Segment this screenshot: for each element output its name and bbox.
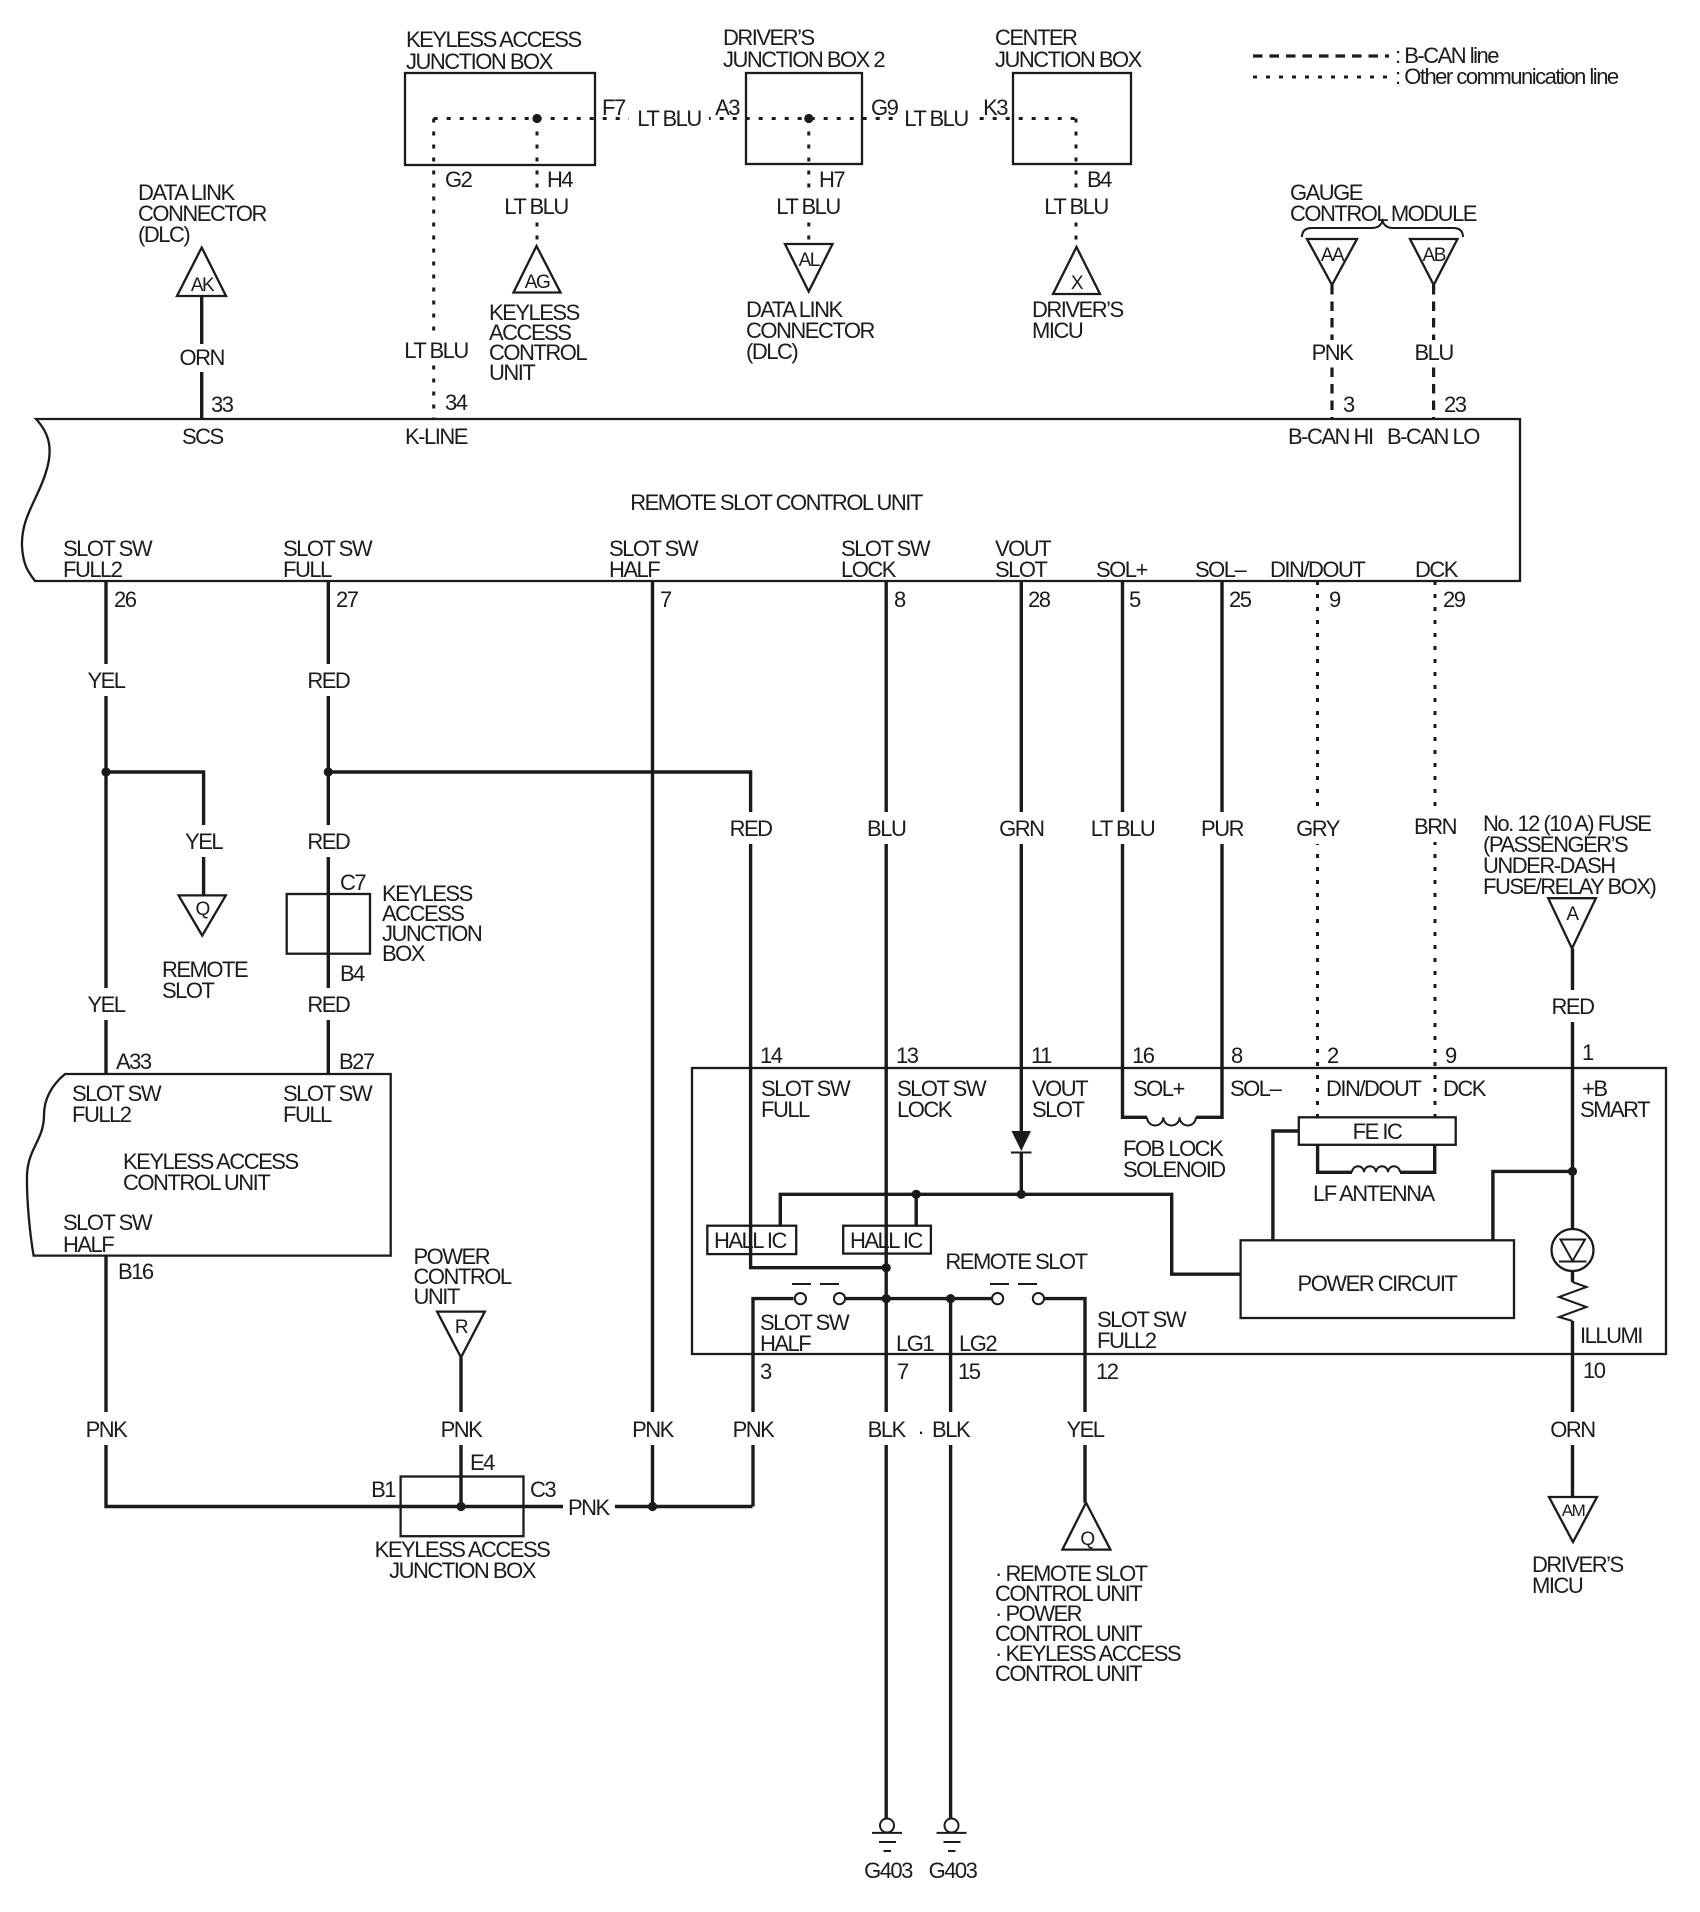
label KEYLESS ACCESS CONTROL UNIT (under AG) xyxy=(489,300,587,385)
wire BLU pin 8 to pin 13 xyxy=(862,581,910,1068)
svg-text:F7: F7 xyxy=(602,95,626,120)
connector triangle X xyxy=(1053,247,1100,294)
svg-text:RED: RED xyxy=(1552,994,1595,1019)
svg-text:26: 26 xyxy=(114,587,137,612)
svg-text:A: A xyxy=(1566,904,1579,925)
wire PUR pin 25 to pin 8 xyxy=(1198,581,1246,1068)
svg-text:AK: AK xyxy=(191,275,215,296)
node junction on YEL wire xyxy=(101,767,110,776)
wire GRY dotted DIN/DOUT pin 9 to pin 2 xyxy=(1293,581,1343,1117)
svg-text:RED: RED xyxy=(730,816,773,841)
svg-text:8: 8 xyxy=(1231,1043,1243,1068)
svg-text:BLK: BLK xyxy=(932,1417,971,1442)
svg-text:C3: C3 xyxy=(530,1477,556,1502)
svg-text:BOX: BOX xyxy=(382,941,426,966)
wire hall ic 2 to bus xyxy=(915,1194,918,1225)
svg-text:REMOTE SLOT: REMOTE SLOT xyxy=(945,1249,1087,1274)
wire PNK R to E4 xyxy=(438,1357,484,1506)
svg-text:FULL: FULL xyxy=(283,557,332,582)
keyless access junction box (top) xyxy=(405,73,595,165)
wire internal bus to power circuit xyxy=(780,1194,1240,1274)
node junction wire 7 / pnk bus xyxy=(648,1502,657,1511)
wire YEL pin 12 to Q xyxy=(1062,1354,1108,1503)
remote slot control unit box xyxy=(22,419,1520,581)
wire YEL pin 26 to A33 xyxy=(82,581,130,1074)
wire ORN pin 10 to AM xyxy=(1549,1354,1597,1497)
svg-text:SMART: SMART xyxy=(1580,1097,1650,1122)
legend B-CAN line xyxy=(1253,43,1499,68)
label REMOTE SLOT (under Q) xyxy=(162,957,248,1003)
svg-text:9: 9 xyxy=(1329,587,1341,612)
svg-text:HALF: HALF xyxy=(63,1232,114,1257)
svg-text:5: 5 xyxy=(1129,587,1141,612)
wire YEL branch to remote slot Q xyxy=(106,772,227,895)
svg-text:MICU: MICU xyxy=(1032,318,1083,343)
wire LT BLU pin 5 to pin 16 xyxy=(1084,581,1160,1068)
svg-text:B27: B27 xyxy=(339,1049,375,1074)
wire LT BLU dotted H4 to AG xyxy=(501,119,572,247)
diode on VOUT SLOT line xyxy=(1011,1068,1032,1194)
svg-text:(DLC): (DLC) xyxy=(138,222,189,247)
svg-text:A3: A3 xyxy=(715,95,740,120)
resistor ILLUMI xyxy=(1559,1271,1587,1354)
wire LT BLU dotted horizontal run F7/A3/G9/K3 xyxy=(434,105,1076,132)
svg-text:28: 28 xyxy=(1028,587,1051,612)
remote slot assembly box xyxy=(692,1068,1666,1354)
svg-text:RED: RED xyxy=(307,992,350,1017)
pin SLOT SW HALF label xyxy=(609,536,699,582)
connector triangle AA xyxy=(1307,239,1357,285)
svg-text:PNK: PNK xyxy=(441,1417,484,1442)
keyless access junction box (bottom) xyxy=(401,1477,524,1537)
svg-text:LG1: LG1 xyxy=(896,1331,934,1356)
node junction bus / hall ic 2 xyxy=(912,1190,921,1199)
svg-text:GRY: GRY xyxy=(1296,816,1341,841)
switch slot sw half xyxy=(753,1284,886,1354)
svg-text:PNK: PNK xyxy=(632,1417,675,1442)
svg-text:G403: G403 xyxy=(864,1858,913,1883)
svg-text:B-CAN LO: B-CAN LO xyxy=(1387,424,1480,449)
node junction E4 xyxy=(456,1502,465,1511)
svg-text:16: 16 xyxy=(1132,1043,1155,1068)
svg-text:SOL–: SOL– xyxy=(1230,1076,1283,1101)
pin SLOT SW LOCK label (assembly) xyxy=(897,1076,987,1122)
svg-text:BLU: BLU xyxy=(867,816,906,841)
svg-text:E4: E4 xyxy=(470,1450,495,1475)
svg-text:2: 2 xyxy=(1327,1043,1339,1068)
svg-text:YEL: YEL xyxy=(87,668,125,693)
keyless access control unit box xyxy=(27,1074,391,1256)
wire switch row to LG2 xyxy=(886,1297,950,1300)
svg-text:AM: AM xyxy=(1562,1501,1585,1520)
node junction switch row / wire 13 xyxy=(882,1294,891,1303)
pin +B SMART label xyxy=(1580,1076,1650,1122)
wire ORN from AK to pin 33 xyxy=(177,296,227,418)
svg-text:G2: G2 xyxy=(445,167,473,192)
connector triangle AL xyxy=(785,244,833,292)
svg-text:LT BLU: LT BLU xyxy=(504,194,568,219)
svg-text:25: 25 xyxy=(1229,587,1252,612)
svg-text:JUNCTION BOX: JUNCTION BOX xyxy=(406,49,554,74)
wire LT BLU dotted H7 to AL xyxy=(773,119,844,245)
svg-text:PUR: PUR xyxy=(1201,816,1244,841)
connector triangle AK xyxy=(177,248,226,297)
pin SLOT SW FULL label (KACU) xyxy=(283,1081,373,1127)
svg-text:JUNCTION BOX: JUNCTION BOX xyxy=(389,1558,537,1583)
svg-text:PNK: PNK xyxy=(1312,340,1355,365)
svg-text:R: R xyxy=(455,1317,468,1338)
svg-text:AA: AA xyxy=(1321,245,1345,266)
svg-text:LF ANTENNA: LF ANTENNA xyxy=(1313,1181,1436,1206)
illumination lamp xyxy=(1552,1229,1594,1271)
svg-text:ORN: ORN xyxy=(1550,1417,1595,1442)
svg-text:ORN: ORN xyxy=(180,345,225,370)
pin SLOT SW HALF label (KACU) xyxy=(63,1210,153,1257)
svg-text:SOL+: SOL+ xyxy=(1133,1076,1185,1101)
node junction in keyless access junction box xyxy=(532,114,541,123)
label DATA LINK CONNECTOR (DLC) top-left xyxy=(138,180,266,247)
pin SLOT SW FULL2 label xyxy=(63,536,153,582)
svg-text:C7: C7 xyxy=(340,870,366,895)
svg-text:AB: AB xyxy=(1423,245,1446,266)
label REMOTE SLOT / POWER / KEYLESS ACCESS CONTROL UNIT list xyxy=(995,1561,1181,1686)
wire PNK B-CAN dashed AA to pin 3 xyxy=(1307,285,1357,418)
power circuit box xyxy=(1241,1240,1514,1318)
wire K-LINE dotted G2 to pin 34 xyxy=(400,119,470,419)
wire RED fuse to pin 1 xyxy=(1549,949,1597,1069)
svg-text:SOLENOID: SOLENOID xyxy=(1123,1157,1225,1182)
svg-text:DIN/DOUT: DIN/DOUT xyxy=(1270,557,1365,582)
svg-text:ILLUMI: ILLUMI xyxy=(1580,1323,1642,1348)
svg-text:: Other communication line: : Other communication line xyxy=(1395,64,1619,89)
center junction box xyxy=(1013,73,1131,164)
wire RED pin 27 to B27 xyxy=(303,581,353,1074)
svg-text:K-LINE: K-LINE xyxy=(405,424,468,449)
svg-text:LT BLU: LT BLU xyxy=(776,194,840,219)
svg-text:DCK: DCK xyxy=(1415,557,1459,582)
svg-text:MICU: MICU xyxy=(1532,1573,1583,1598)
switch slot sw full2 (remote slot) xyxy=(951,1284,1085,1354)
svg-text:10: 10 xyxy=(1583,1358,1606,1383)
svg-text:(DLC): (DLC) xyxy=(746,339,797,364)
svg-text:FUSE/RELAY BOX): FUSE/RELAY BOX) xyxy=(1483,874,1655,899)
svg-text:27: 27 xyxy=(336,587,359,612)
svg-text:SLOT: SLOT xyxy=(1032,1097,1085,1122)
svg-text:B4: B4 xyxy=(1087,167,1112,192)
wire +B to power circuit xyxy=(1493,1171,1573,1240)
svg-text:YEL: YEL xyxy=(87,992,125,1017)
svg-text:LOCK: LOCK xyxy=(841,557,897,582)
pin SLOT SW FULL label xyxy=(283,536,373,582)
svg-text:JUNCTION BOX 2: JUNCTION BOX 2 xyxy=(723,47,885,72)
svg-text:YEL: YEL xyxy=(1066,1417,1104,1442)
label CENTER JUNCTION BOX xyxy=(995,25,1143,72)
svg-text:FULL2: FULL2 xyxy=(63,557,123,582)
svg-text:8: 8 xyxy=(894,587,906,612)
wire BLK pin 7 to ground xyxy=(863,1354,909,1819)
svg-text:FULL2: FULL2 xyxy=(1097,1328,1157,1353)
svg-text:UNIT: UNIT xyxy=(489,360,535,385)
svg-text:33: 33 xyxy=(211,392,234,417)
svg-text:SOL+: SOL+ xyxy=(1096,557,1148,582)
svg-text:DIN/DOUT: DIN/DOUT xyxy=(1326,1076,1421,1101)
driver's junction box 2 xyxy=(746,73,862,164)
ground G403 (pin 7) xyxy=(864,1819,913,1884)
svg-text:Q: Q xyxy=(196,899,210,920)
svg-text:14: 14 xyxy=(760,1043,783,1068)
svg-text:PNK: PNK xyxy=(86,1417,129,1442)
label KEYLESS ACCESS JUNCTION BOX (bottom) xyxy=(375,1537,550,1583)
wire slot sw lock pin 13 through hall ic 2 xyxy=(885,1068,888,1354)
label KEYLESS ACCESS JUNCTION BOX (top) xyxy=(406,27,581,74)
pin SLOT SW LOCK label xyxy=(841,536,931,582)
svg-text:LT BLU: LT BLU xyxy=(904,106,968,131)
wire LT BLU dotted B4 to X xyxy=(1040,119,1112,248)
svg-text:12: 12 xyxy=(1096,1359,1119,1384)
svg-text:SCS: SCS xyxy=(182,424,224,449)
lf antenna xyxy=(1318,1145,1435,1173)
label DRIVER'S MICU (under X) xyxy=(1032,297,1124,343)
svg-text:SOL–: SOL– xyxy=(1195,557,1248,582)
svg-text:POWER CIRCUIT: POWER CIRCUIT xyxy=(1298,1271,1458,1296)
svg-text:BRN: BRN xyxy=(1414,814,1457,839)
svg-text:3: 3 xyxy=(1343,392,1355,417)
node junction wire 13 / wire 14 xyxy=(882,1263,891,1272)
label DRIVER'S MICU (bottom) xyxy=(1532,1552,1624,1598)
svg-text:UNIT: UNIT xyxy=(414,1284,460,1309)
svg-text:B16: B16 xyxy=(118,1259,154,1284)
svg-text:HALF: HALF xyxy=(760,1331,811,1356)
svg-text:LOCK: LOCK xyxy=(897,1097,953,1122)
svg-text:CONTROL UNIT: CONTROL UNIT xyxy=(995,1661,1142,1686)
svg-text:LT BLU: LT BLU xyxy=(1091,816,1155,841)
svg-text:H4: H4 xyxy=(547,167,573,192)
wire slot sw full pin 14 through hall ic 1 xyxy=(751,1068,887,1268)
svg-text:AL: AL xyxy=(799,250,820,271)
node junction bus / diode xyxy=(1017,1190,1026,1199)
pin SLOT SW FULL label (assembly) xyxy=(761,1076,851,1122)
connector triangle Q (bottom) xyxy=(1062,1503,1110,1550)
label POWER CONTROL UNIT xyxy=(414,1244,512,1309)
svg-text:LT BLU: LT BLU xyxy=(637,106,701,131)
pin SLOT SW FULL2 label (assembly) xyxy=(1097,1307,1187,1353)
wire GRN pin 28 to pin 11 xyxy=(996,581,1046,1068)
svg-text:PNK: PNK xyxy=(568,1495,611,1520)
svg-text:3: 3 xyxy=(760,1359,772,1384)
wire PNK pin 7 down xyxy=(629,581,677,1507)
svg-text:YEL: YEL xyxy=(185,829,223,854)
svg-text:11: 11 xyxy=(1031,1043,1052,1068)
svg-text:BLK: BLK xyxy=(868,1417,907,1442)
svg-text:SLOT: SLOT xyxy=(162,978,215,1003)
svg-text:FULL2: FULL2 xyxy=(72,1102,132,1127)
svg-text:1: 1 xyxy=(1582,1040,1594,1065)
wire +B smart pin 1 to lamp xyxy=(1571,1068,1574,1229)
svg-text:AG: AG xyxy=(525,272,550,293)
node junction on RED wire xyxy=(324,767,333,776)
svg-text:FE IC: FE IC xyxy=(1353,1119,1403,1144)
node junction +B / power circuit xyxy=(1568,1167,1577,1176)
label DATA LINK CONNECTOR (DLC) under AL xyxy=(746,297,874,364)
wire fe ic to power circuit xyxy=(1273,1131,1299,1240)
connector triangle AM xyxy=(1549,1497,1597,1542)
svg-text:LT BLU: LT BLU xyxy=(404,338,468,363)
pin VOUT SLOT label xyxy=(995,536,1051,582)
svg-text:PNK: PNK xyxy=(733,1417,776,1442)
wire PNK pin 3 below assembly box xyxy=(730,1354,776,1507)
svg-text:DCK: DCK xyxy=(1443,1076,1487,1101)
svg-text:7: 7 xyxy=(660,587,672,612)
brace under gauge control module xyxy=(1302,221,1463,237)
label KEYLESS ACCESS CONTROL UNIT xyxy=(123,1149,298,1195)
svg-text:CONTROL UNIT: CONTROL UNIT xyxy=(123,1170,270,1195)
svg-text:G9: G9 xyxy=(871,95,899,120)
svg-text:B-CAN HI: B-CAN HI xyxy=(1288,424,1373,449)
node junction in driver's junction box 2 xyxy=(804,114,813,123)
svg-text:SLOT: SLOT xyxy=(995,557,1048,582)
svg-text:JUNCTION BOX: JUNCTION BOX xyxy=(995,47,1143,72)
connector triangle A (fuse) xyxy=(1548,898,1596,948)
svg-text:Q: Q xyxy=(1080,1529,1094,1550)
svg-text:29: 29 xyxy=(1443,587,1466,612)
svg-text:HALF: HALF xyxy=(609,557,660,582)
legend other communication line xyxy=(1253,64,1619,89)
svg-text:LT BLU: LT BLU xyxy=(1044,194,1108,219)
hall ic 1 xyxy=(707,1226,796,1254)
svg-text:34: 34 xyxy=(445,390,468,415)
pin SLOT SW HALF label (assembly) xyxy=(760,1310,850,1356)
pin VOUT SLOT label (assembly) xyxy=(1032,1076,1088,1122)
svg-text:GRN: GRN xyxy=(999,816,1044,841)
hall ic 2 xyxy=(843,1226,931,1254)
svg-text:G403: G403 xyxy=(929,1858,978,1883)
svg-text:.: . xyxy=(918,1414,923,1439)
wire BLK pin 15 to ground xyxy=(918,1354,973,1819)
wire RED branch pin 27 to pin 14 xyxy=(328,772,776,1068)
label FOB LOCK SOLENOID xyxy=(1123,1136,1225,1182)
label KEYLESS ACCESS JUNCTION BOX (middle) xyxy=(382,881,482,966)
svg-text:LG2: LG2 xyxy=(959,1331,997,1356)
svg-text:FULL: FULL xyxy=(761,1097,810,1122)
label DRIVER'S JUNCTION BOX 2 xyxy=(723,25,885,72)
wire LG2 pin 15 xyxy=(949,1299,952,1354)
svg-text:RED: RED xyxy=(307,829,350,854)
svg-text:9: 9 xyxy=(1445,1043,1457,1068)
label No. 12 (10 A) FUSE (passenger's under-dash fuse/relay box) xyxy=(1483,811,1655,899)
svg-text:7: 7 xyxy=(897,1359,909,1384)
svg-text:H7: H7 xyxy=(819,167,845,192)
svg-text:X: X xyxy=(1071,273,1084,294)
wire BLU B-CAN dashed AB to pin 23 xyxy=(1409,285,1459,418)
svg-text:A33: A33 xyxy=(116,1049,152,1074)
svg-text:B1: B1 xyxy=(371,1477,396,1502)
pin SLOT SW FULL2 label (KACU) xyxy=(72,1081,162,1127)
svg-text:RED: RED xyxy=(307,668,350,693)
connector triangle Q (remote slot) xyxy=(179,895,226,935)
svg-text:REMOTE SLOT CONTROL UNIT: REMOTE SLOT CONTROL UNIT xyxy=(630,490,923,515)
svg-text:23: 23 xyxy=(1444,392,1467,417)
connector triangle AB xyxy=(1410,239,1458,285)
wire PNK B16 to junction box B1 xyxy=(84,1256,753,1524)
svg-text:K3: K3 xyxy=(983,95,1008,120)
svg-text:B4: B4 xyxy=(340,961,365,986)
svg-text:15: 15 xyxy=(958,1359,981,1384)
label GAUGE CONTROL MODULE xyxy=(1290,180,1477,226)
fob lock solenoid xyxy=(1123,1068,1223,1125)
fe ic xyxy=(1299,1117,1456,1145)
connector triangle AG xyxy=(514,246,561,293)
svg-text:13: 13 xyxy=(896,1043,919,1068)
svg-text:BLU: BLU xyxy=(1414,340,1453,365)
connector triangle R xyxy=(437,1312,485,1358)
ground G403 (pin 15) xyxy=(929,1819,978,1884)
wire BRN dotted DCK pin 29 to pin 9 xyxy=(1411,581,1459,1117)
keyless access junction box (middle pass-through C7/B4) xyxy=(287,894,370,954)
node junction switch row / LG2 xyxy=(946,1294,955,1303)
svg-text:FULL: FULL xyxy=(283,1102,332,1127)
